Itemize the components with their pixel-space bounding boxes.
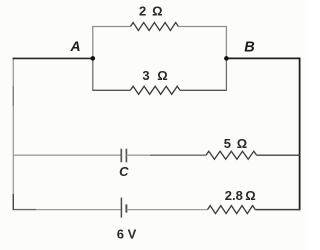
wire: A vertical up to 2-ohm branch (92, 26, 94, 59)
wire: middle branch capacitor to 5-ohm (darker part) (150, 154, 206, 156)
battery long plate (120, 198, 122, 218)
svg-text:2.8: 2.8 (225, 188, 243, 203)
resistor 2-ohm zigzag (130, 23, 178, 31)
svg-text:Ω: Ω (157, 68, 167, 83)
wire: node B to right (226, 57, 300, 59)
svg-text:5: 5 (224, 136, 231, 151)
wire: 3-ohm branch right vertical up to B (225, 58, 227, 91)
svg-text:2: 2 (139, 4, 146, 19)
capacitor C right plate (125, 149, 127, 163)
wire: left vertical dark segment lower (12, 194, 14, 210)
svg-text:C: C (119, 164, 129, 179)
svg-text:A: A (70, 38, 81, 54)
wire: left vertical (12, 58, 14, 209)
resistor 3-ohm zigzag (130, 86, 180, 94)
wire: 3-ohm branch left horizontal (93, 89, 131, 91)
svg-text:6 V: 6 V (117, 227, 137, 242)
capacitor C left plate (120, 149, 122, 163)
wire: top branch left horizontal (93, 26, 131, 28)
wire: bottom branch 2.8-ohm to right corner (255, 209, 300, 211)
node B (224, 56, 229, 61)
wire: middle branch capacitor to 5-ohm (light part) (126, 154, 150, 156)
node A (91, 56, 96, 61)
resistor 2.8-ohm zigzag (208, 206, 256, 214)
wire: bottom branch left of battery (36, 209, 121, 211)
svg-text:Ω: Ω (245, 188, 255, 203)
wire: bottom branch corner dark segment (13, 209, 36, 211)
wire: left vertical dark segment upper (12, 86, 14, 106)
wire: bottom branch battery to 2.8-ohm (126, 209, 207, 211)
svg-text:3: 3 (142, 68, 149, 83)
svg-text:B: B (244, 39, 254, 55)
wire: left to node A (13, 57, 93, 59)
wire: right vertical (299, 58, 301, 211)
wire: middle branch left of capacitor (13, 154, 121, 156)
svg-text:Ω: Ω (152, 4, 162, 19)
wire: A vertical down to 3-ohm branch (92, 58, 94, 91)
svg-text:Ω: Ω (237, 136, 247, 151)
wire: middle branch 5-ohm to right wire (257, 154, 300, 156)
wire: top branch right horizontal (178, 26, 226, 28)
wire: 3-ohm branch right horizontal (180, 89, 226, 91)
battery short plate (125, 204, 127, 212)
resistor 5-ohm zigzag (206, 151, 257, 159)
wire: top branch right vertical down to B (225, 26, 227, 59)
